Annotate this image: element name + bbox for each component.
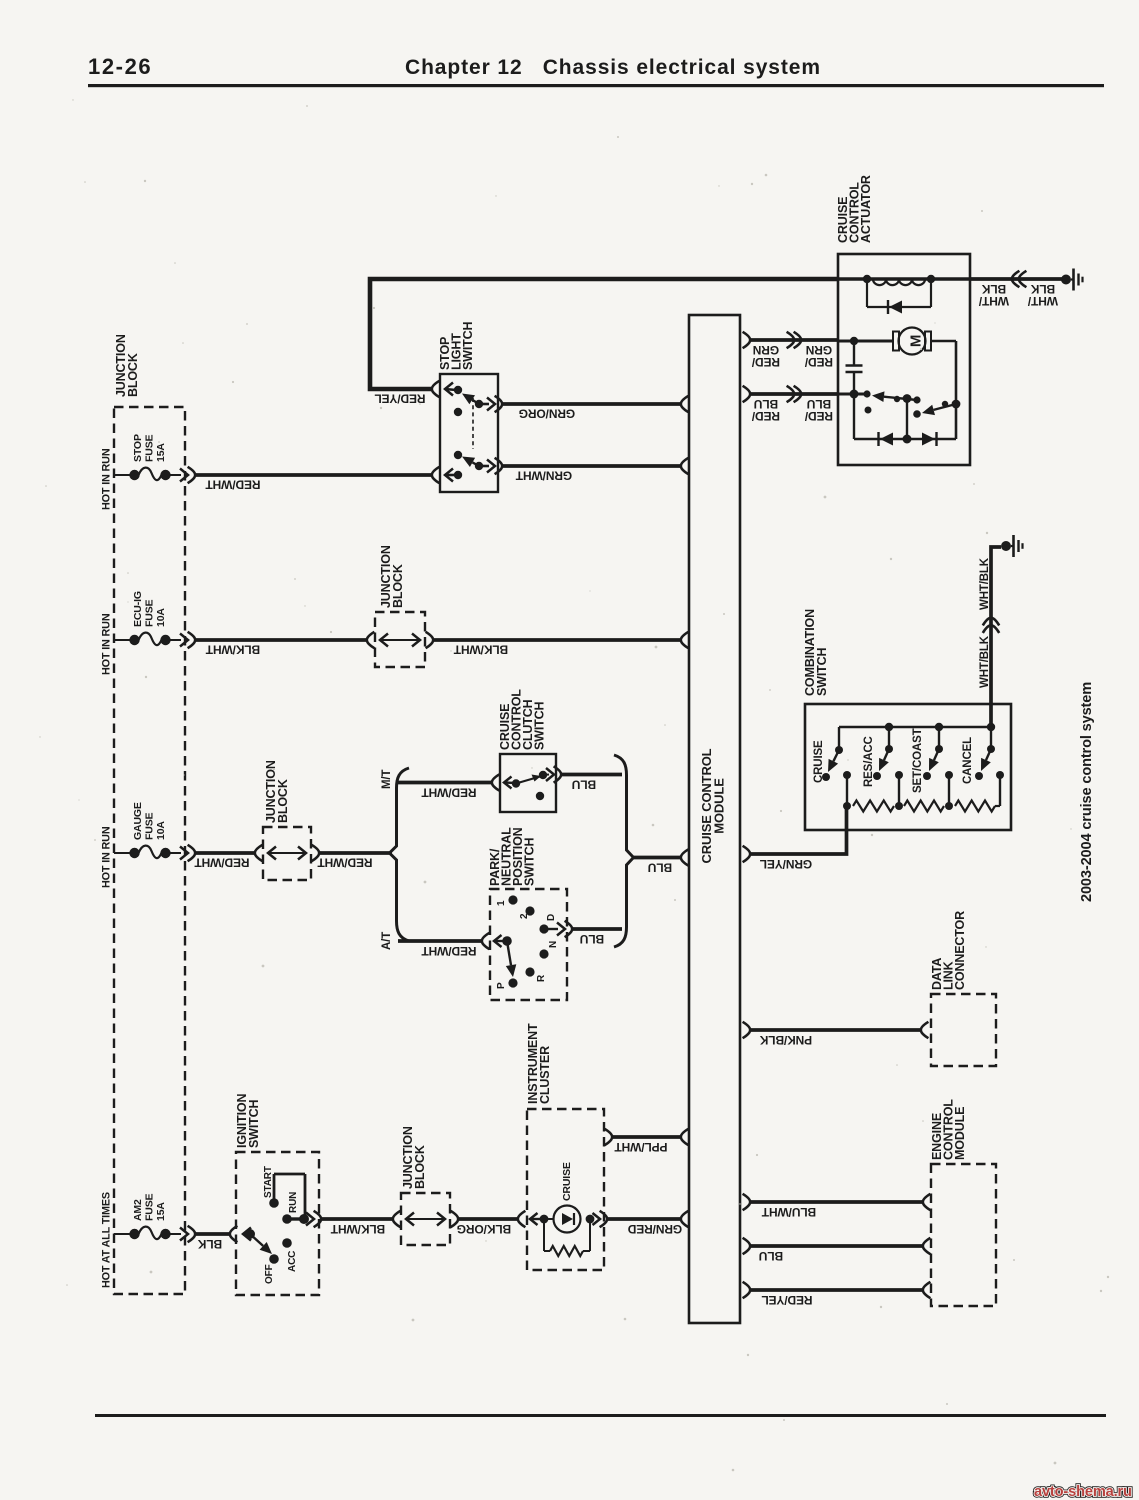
ground (actuator) [1061,269,1083,291]
svg-text:WHT/BLK: WHT/BLK [979,557,991,610]
svg-text:RED/WHT: RED/WHT [194,856,250,870]
svg-text:RED/WHT: RED/WHT [205,478,261,492]
wire BLU (clutch switch to brace) [561,775,622,792]
CRUISE indicator lamp [540,1162,581,1232]
stop light switch upper contact [432,381,502,416]
wire RED/BLU (module to actuator) [743,386,838,423]
svg-text:START: START [263,1166,274,1198]
svg-text:BLK/ORG: BLK/ORG [457,1222,511,1236]
svg-text:GRN/YEL: GRN/YEL [760,857,812,871]
wire GRN/WHT (stop light switch to module) [502,458,688,483]
svg-text:FUSE: FUSE [144,434,156,462]
svg-text:SET/COAST: SET/COAST [912,728,924,793]
cruise control clutch switch [498,689,556,812]
svg-text:SWITCH: SWITCH [247,1099,261,1148]
svg-text:15A: 15A [155,1202,167,1221]
svg-text:GRN/WHT: GRN/WHT [515,469,572,483]
resistor (cluster lamp bypass) [544,1215,594,1256]
svg-text:FUSE: FUSE [144,812,156,840]
connector into ignition switch [230,1226,251,1242]
svg-text:1: 1 [496,900,507,906]
svg-text:BLK: BLK [981,282,1006,296]
svg-text:HOT IN RUN: HOT IN RUN [101,613,113,675]
svg-text:MODULE: MODULE [712,778,727,834]
bottom rule [95,1414,1106,1417]
wire BLK/WHT (ecu-ig fuse to junction block) [195,640,368,657]
fuse AM2 FUSE 15A [114,1193,181,1239]
actuator switch network [838,390,960,440]
junction block (left fuse box, dashed) [114,334,185,1294]
svg-text:SWITCH: SWITCH [815,647,829,696]
wire WHT/BLK (actuator to ground) [970,271,1062,308]
connector out of instrument cluster [590,1211,607,1227]
fuse STOP FUSE 15A [114,434,181,480]
brace (split to M/T and A/T) [390,768,410,941]
page number header [88,54,1104,87]
svg-text:CANCEL: CANCEL [962,737,974,784]
svg-text:GRN: GRN [806,343,832,357]
svg-text:10A: 10A [155,821,167,840]
inductor (magnetic clutch coil) [838,275,970,285]
wire RED/YEL (module to engine control module) [743,1282,931,1307]
fuse ECU-IG FUSE 10A [114,591,181,645]
svg-text:RUN: RUN [288,1192,299,1213]
wire GRN/ORG (stop light switch to module) [502,396,688,421]
switch RES/ACC [863,736,893,787]
svg-text:BLU: BLU [580,932,604,946]
svg-text:M/T: M/T [381,770,393,789]
svg-text:2: 2 [519,913,530,919]
svg-text:R: R [536,974,547,982]
wire BLU (module to engine control module) [743,1238,931,1263]
svg-text:HOT IN RUN: HOT IN RUN [101,826,113,888]
connector pair through junction block row 4 [393,1211,458,1227]
fuse GAUGE FUSE 10A [114,802,181,858]
connector (fuse block exit, row 2) [180,632,195,648]
caption 2003-2004 cruise control system [1079,682,1095,902]
wire RED/WHT (gauge fuse to junction block) [194,853,256,870]
svg-text:AM2: AM2 [132,1199,144,1221]
wire BLK/ORG (junction block to instrument cluster) [457,1219,519,1236]
wire RED/WHT (junction block to M/T A/T branch) [317,853,392,870]
svg-text:Chapter 12 Chassis electrica: Chapter 12 Chassis electrical system [405,56,821,79]
svg-text:CONNECTOR: CONNECTOR [953,911,967,990]
svg-text:2003-2004 cruise control syste: 2003-2004 cruise control system [1079,682,1095,902]
connector pair through junction block row 3 [255,845,319,861]
svg-text:BLU: BLU [759,1249,783,1263]
junction block (row 2, dashed) [375,545,425,667]
svg-text:ECU-IG: ECU-IG [132,591,144,627]
watermark avto-shema.ru [1034,1484,1132,1500]
svg-text:BLOCK: BLOCK [126,353,140,397]
mechanical link (dashed) [472,398,474,449]
svg-text:BLU/WHT: BLU/WHT [761,1205,816,1219]
svg-text:FUSE: FUSE [144,1193,156,1221]
brace (merge M/T A/T to module) [614,755,634,947]
svg-text:BLU: BLU [807,397,831,411]
wire BLU (park/neutral switch to brace) [572,929,622,946]
wire RED/WHT (M/T branch to clutch switch) [398,783,493,800]
svg-text:15A: 15A [155,443,167,462]
connector into instrument cluster [518,1211,544,1227]
label M/T [381,770,393,789]
svg-text:10A: 10A [155,608,167,627]
ground (combination switch) [1001,535,1023,557]
motor M [893,328,931,355]
switch SET/COAST [912,728,943,793]
svg-text:SWITCH: SWITCH [523,837,537,886]
wire PNK/BLK (module to data link connector) [743,1022,929,1047]
svg-text:avto-shema.ru: avto-shema.ru [1034,1484,1132,1500]
svg-text:BLU: BLU [754,397,778,411]
ignition switch (dashed) [235,1094,319,1295]
svg-text:RED/WHT: RED/WHT [317,856,373,870]
connector pair through junction block row 2 [367,632,433,648]
svg-text:BLU: BLU [648,861,672,875]
stop light switch [438,321,498,492]
svg-text:12-26: 12-26 [88,54,152,79]
svg-text:CLUSTER: CLUSTER [538,1046,552,1104]
svg-text:BLK/WHT: BLK/WHT [330,1222,385,1236]
capacitor [846,341,863,394]
svg-text:RED/WHT: RED/WHT [421,944,477,958]
svg-text:D: D [546,914,557,921]
label A/T [381,932,393,950]
svg-text:GAUGE: GAUGE [132,802,144,840]
svg-text:STOP: STOP [132,434,144,462]
svg-text:CRUISE: CRUISE [813,740,825,783]
connector (fuse block exit, row 1) [180,467,195,483]
wire WHT/BLK (combination switch to ground) [979,547,1001,727]
stop light switch lower contact [432,451,502,483]
svg-text:BLU: BLU [572,778,596,792]
svg-text:SWITCH: SWITCH [461,321,475,370]
diodes (actuator bottom) [854,432,956,446]
svg-text:BLK: BLK [1030,282,1055,296]
svg-text:BLOCK: BLOCK [276,779,290,823]
combination switch bus [839,723,995,750]
svg-text:P: P [496,982,507,989]
engine control module (dashed) [930,1099,996,1306]
actuator wiring row 2 [838,337,956,439]
svg-text:WHT/BLK: WHT/BLK [979,635,991,688]
connector (fuse block exit, row 4) [180,1226,195,1242]
label HOT IN RUN (row 2) [101,613,113,675]
svg-text:GRN: GRN [753,343,779,357]
svg-text:BLK: BLK [197,1237,222,1251]
cruise control module [689,315,740,1323]
connector (fuse block exit, row 3) [180,845,195,861]
svg-text:BLK/WHT: BLK/WHT [205,643,260,657]
label HOT IN RUN (row 1) [101,448,113,510]
wire BLK/WHT (ignition switch to junction block) [320,1219,394,1236]
switch CRUISE [813,740,843,783]
svg-text:GRN/ORG: GRN/ORG [519,407,575,421]
park/neutral position switch (dashed) [488,827,567,1000]
cruise control actuator [836,175,970,465]
wire PPL/WHT (instrument cluster to module) [605,1129,689,1154]
svg-text:OFF: OFF [264,1264,275,1284]
svg-text:FUSE: FUSE [144,599,156,627]
svg-text:BLOCK: BLOCK [413,1145,427,1189]
label HOT AT ALL TIMES [101,1192,113,1288]
junction block (row 4, dashed) [401,1126,450,1245]
wire BLU/WHT (module to engine control module) [743,1194,931,1219]
svg-text:RED/YEL: RED/YEL [375,392,426,406]
resistor ladder [843,771,1004,812]
instrument cluster (dashed) [526,1023,604,1270]
svg-text:GRN/RED: GRN/RED [627,1222,682,1236]
svg-text:A/T: A/T [381,932,393,950]
data link connector (dashed) [930,911,996,1066]
junction block (row 3, dashed) [263,760,311,880]
combination switch [803,609,1011,830]
wire BLK/WHT (junction block to cruise control module) [433,632,688,657]
svg-text:ACTUATOR: ACTUATOR [859,175,873,243]
label HOT IN RUN (row 3) [101,826,113,888]
connector into park/neutral switch [482,933,507,949]
wire RED/WHT (A/T branch to park/neutral switch) [398,941,483,958]
svg-text:M: M [907,335,924,347]
svg-text:CRUISE: CRUISE [561,1162,573,1201]
svg-text:RES/ACC: RES/ACC [863,736,875,787]
svg-text:RED/WHT: RED/WHT [421,786,477,800]
svg-text:N: N [548,941,559,948]
svg-text:HOT AT ALL TIMES: HOT AT ALL TIMES [101,1192,113,1288]
svg-text:BLK/WHT: BLK/WHT [453,643,508,657]
svg-text:HOT IN RUN: HOT IN RUN [101,448,113,510]
wire GRN/YEL (module to combination switch) [743,806,847,871]
wire RED/GRN (module to actuator) [743,332,838,369]
park/neutral switch contacts 1 2 D N R P [496,895,572,989]
connector + switch inside clutch switch [492,766,561,800]
switch CANCEL [962,737,995,784]
ignition switch contacts OFF ACC RUN START [245,1166,321,1284]
wire GRN/RED (instrument cluster to module) [607,1211,688,1236]
svg-text:ACC: ACC [287,1251,298,1272]
svg-text:PNK/BLK: PNK/BLK [759,1033,812,1047]
svg-text:RED/YEL: RED/YEL [762,1293,813,1307]
svg-text:SWITCH: SWITCH [533,701,547,750]
wire RED/WHT (stop fuse to stop light switch) [195,475,433,492]
wire RED/YEL (top feed to stop light switch) [370,279,838,406]
wire BLU (brace to cruise control module) [633,849,688,874]
svg-text:BLOCK: BLOCK [391,564,405,608]
wire BLK (am2 fuse to ignition switch) [195,1234,231,1251]
svg-text:PPL/WHT: PPL/WHT [614,1140,668,1154]
diode (coil bypass) [867,279,931,314]
svg-text:MODULE: MODULE [953,1107,967,1160]
